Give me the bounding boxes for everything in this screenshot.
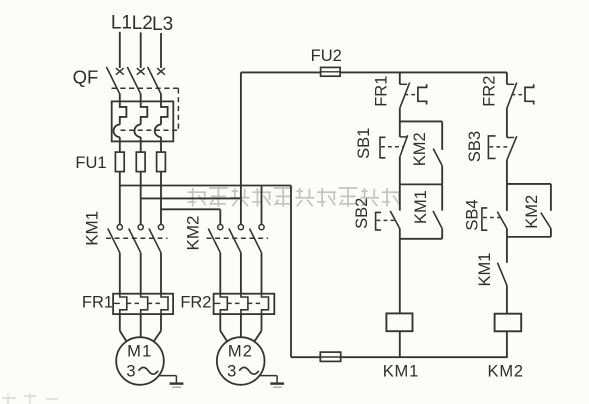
breaker QF pole 3 wire to trip box	[160, 94, 162, 102]
fuse FU2	[321, 67, 341, 76]
pushbutton SB1 NC contact	[399, 121, 401, 136]
wire L3 drop	[160, 33, 162, 68]
svg-text:KM2: KM2	[523, 195, 541, 229]
wire control bottom bus	[291, 356, 320, 358]
breaker QF pole 1 wire to trip box	[119, 94, 121, 102]
wire branch line phase3	[161, 208, 220, 210]
svg-text:KM1: KM1	[82, 211, 101, 246]
contactor KM2 main contact 3	[259, 225, 264, 230]
thermal relay FR2 heater 1	[220, 294, 227, 314]
contactor KM1 main contact 3	[158, 225, 163, 230]
pushbutton SB4 actuator	[482, 208, 487, 230]
coil KM2	[495, 314, 522, 332]
contactor KM2 aux contact (parallel SB1)	[441, 121, 443, 149]
pushbutton SB1 link dashed	[381, 146, 403, 148]
wire coil KM2 to bottom bus	[506, 331, 508, 357]
wire fuse 3 down	[160, 172, 162, 225]
svg-text:KM2: KM2	[411, 132, 429, 166]
contactor KM1 linkage dashed	[106, 237, 168, 239]
thermal relay FR2 link dashed	[227, 302, 241, 304]
svg-text:FU1: FU1	[75, 154, 106, 172]
breaker QF thermal element 1	[120, 101, 127, 124]
wire M2 lead left	[219, 314, 221, 331]
pushbutton SB2 link dashed	[377, 219, 397, 221]
wire KM2 contact 2 to FR2	[240, 253, 242, 294]
fuse FU3 on bottom bus	[320, 352, 340, 361]
svg-text:SB3: SB3	[466, 131, 484, 162]
svg-text:L1: L1	[111, 12, 132, 33]
watermark text	[188, 188, 401, 207]
breaker QF pole 1 wire to fuse	[119, 137, 121, 152]
wire branch line phase1 to control return	[120, 185, 291, 187]
thermal relay FR2 NC contact	[506, 72, 508, 84]
wire L1 drop	[119, 32, 121, 68]
wire branch line phase2	[141, 197, 241, 199]
node branch2 pair bottom join	[507, 236, 551, 238]
wire control top bus	[241, 71, 321, 73]
fuse FU1 element 2	[136, 152, 145, 172]
thermal relay FR1 trip dashes	[405, 94, 417, 96]
breaker QF pole 1 blade	[106, 67, 119, 94]
wire fuse 1 down	[119, 172, 121, 225]
wire KM1 contact 1 to FR1	[119, 253, 121, 294]
pushbutton SB1 actuator	[380, 137, 385, 158]
pushbutton SB4 NO contact	[506, 184, 508, 211]
contactor KM2 linkage dashed	[207, 237, 269, 239]
wire M2 lead middle	[240, 314, 242, 337]
wire M1 lead right	[160, 314, 162, 331]
pushbutton SB3 NC contact	[506, 121, 508, 137]
pushbutton SB3 link dashed	[489, 146, 509, 148]
svg-text:SB1: SB1	[355, 128, 373, 159]
svg-text:KM1: KM1	[476, 253, 494, 287]
svg-text:M2: M2	[228, 342, 253, 360]
node branch2 pair top	[507, 183, 551, 185]
breaker QF pole 3 blade	[148, 67, 161, 94]
coil KM1	[386, 313, 412, 331]
svg-text:3: 3	[126, 363, 135, 381]
thermal relay FR2 release symbol	[525, 84, 534, 104]
svg-text:SB4: SB4	[463, 199, 481, 230]
thermal relay FR1 NC contact	[399, 72, 401, 84]
svg-text:KM1: KM1	[383, 363, 419, 381]
wire KM1 contact 3 to FR1	[160, 253, 162, 294]
svg-text:FR2: FR2	[180, 294, 211, 312]
svg-text:QF: QF	[73, 66, 99, 87]
contactor KM1 main contact 2	[138, 225, 143, 230]
wire fuse 2 down	[140, 172, 142, 225]
wire control return vertical	[290, 186, 292, 358]
svg-text:SB2: SB2	[353, 198, 371, 229]
wire control feed vertical	[240, 72, 242, 224]
thermal relay FR2 box	[214, 294, 275, 314]
ground for motor M1	[159, 375, 176, 377]
thermal relay FR2 heater 2	[241, 294, 248, 314]
thermal relay FR1 release symbol	[418, 84, 427, 104]
breaker QF pole 3 wire to fuse	[160, 137, 162, 152]
pushbutton SB4 link dashed	[483, 217, 503, 219]
thermal relay FR1 link dashed	[127, 302, 141, 304]
breaker QF thermal element 2	[141, 101, 148, 124]
wire coil KM1 to bottom bus	[399, 331, 401, 357]
contactor KM2 main contact 2	[238, 225, 243, 230]
node pair middle join	[400, 183, 442, 185]
breaker QF pole 3 fixed-contact cross	[157, 68, 165, 75]
pushbutton SB2 actuator	[376, 212, 381, 230]
contactor KM1 main contact 1	[117, 225, 122, 230]
wire KM1 contact 2 to FR1	[140, 253, 142, 294]
ground for motor M2	[260, 375, 277, 377]
fuse FU1 element 1	[115, 152, 124, 172]
svg-text:FU2: FU2	[311, 47, 342, 65]
svg-text:3: 3	[227, 363, 236, 381]
breaker QF thermal element 3	[161, 101, 168, 124]
contactor KM1 aux self-hold contact	[441, 184, 443, 210]
watermark fragment bottom-left	[2, 393, 58, 404]
pushbutton SB3 actuator	[488, 136, 495, 159]
thermal relay FR1 reset stub	[113, 302, 120, 304]
breaker QF linkage dashed	[112, 87, 179, 89]
motor M2 circle	[217, 337, 265, 385]
pushbutton SB2 NO contact	[399, 184, 401, 210]
breaker QF pole 1 fixed-contact cross	[116, 68, 124, 75]
svg-text:KM2: KM2	[488, 363, 524, 381]
svg-text:L2: L2	[132, 13, 153, 34]
breaker QF magnetic element 1	[114, 125, 120, 138]
thermal relay FR2 reset stub	[214, 302, 221, 304]
breaker QF pole 2 wire to trip box	[140, 94, 142, 102]
svg-text:M1: M1	[127, 342, 152, 360]
contactor KM2 main contact 1	[218, 225, 223, 230]
wire M2 lead right	[261, 314, 263, 331]
motor M1 circle	[116, 337, 164, 385]
wire KM2 pole3 feed	[261, 186, 263, 225]
wire KM2 pole1 feed	[219, 209, 221, 224]
contactor KM2 aux self-hold contact	[550, 184, 552, 211]
breaker QF magnetic element 2	[134, 125, 140, 138]
breaker QF pole 2 fixed-contact cross	[137, 68, 145, 75]
thermal relay FR1 heater 2	[141, 294, 148, 314]
wire branch1 to coil	[399, 239, 401, 314]
node pair2 bottom join	[400, 238, 442, 240]
thermal relay FR2 heater 3	[262, 294, 269, 314]
fuse FU1 element 3	[157, 152, 166, 172]
wire KM2 contact 3 to FR2	[261, 253, 263, 294]
breaker QF magnetic element 3	[155, 125, 161, 138]
thermal relay FR2 trip dashes	[512, 94, 524, 96]
wire M1 lead middle	[140, 314, 142, 337]
svg-text:L3: L3	[152, 14, 173, 35]
wire KM2 contact 1 to FR2	[219, 253, 221, 294]
svg-text:KM2: KM2	[184, 216, 203, 251]
breaker QF trip bar dashed	[121, 129, 179, 131]
breaker QF pole 2 wire to fuse	[140, 137, 142, 152]
breaker QF trip unit box	[112, 101, 174, 141]
breaker QF pole 2 blade	[127, 67, 140, 94]
svg-text:FR1: FR1	[82, 294, 113, 312]
node pair1 top	[400, 120, 442, 122]
thermal relay FR1 heater 1	[120, 294, 127, 314]
thermal relay FR1 box	[113, 294, 173, 314]
breaker QF trip-link dashed vertical	[177, 88, 179, 130]
wire L2 drop	[140, 32, 142, 68]
thermal relay FR1 heater 3	[161, 294, 168, 314]
svg-text:FR1: FR1	[372, 76, 390, 107]
svg-text:FR2: FR2	[480, 76, 498, 107]
contactor KM1 aux interlock contact	[506, 237, 508, 263]
svg-text:KM1: KM1	[412, 190, 430, 224]
wire M1 lead left	[119, 314, 121, 331]
